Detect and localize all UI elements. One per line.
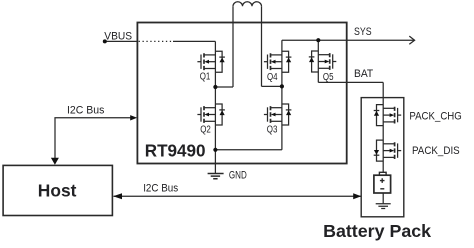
svg-text:BAT: BAT: [354, 68, 373, 80]
svg-text:RT9490: RT9490: [145, 141, 206, 161]
svg-text:Q2: Q2: [200, 125, 211, 136]
svg-text:I2C Bus: I2C Bus: [67, 104, 105, 116]
svg-text:PACK_CHG: PACK_CHG: [409, 110, 461, 122]
svg-text:GND: GND: [229, 170, 247, 182]
svg-text:PACK_DIS: PACK_DIS: [412, 145, 460, 157]
svg-text:Battery Pack: Battery Pack: [323, 221, 431, 241]
svg-text:Q1: Q1: [200, 72, 211, 83]
svg-text:I2C Bus: I2C Bus: [143, 182, 178, 194]
svg-text:Q3: Q3: [267, 125, 278, 136]
svg-text:Q4: Q4: [267, 72, 278, 83]
svg-text:Host: Host: [38, 180, 77, 200]
svg-text:Q5: Q5: [323, 72, 334, 83]
svg-text:VBUS: VBUS: [104, 30, 132, 42]
svg-text:SYS: SYS: [354, 26, 372, 38]
